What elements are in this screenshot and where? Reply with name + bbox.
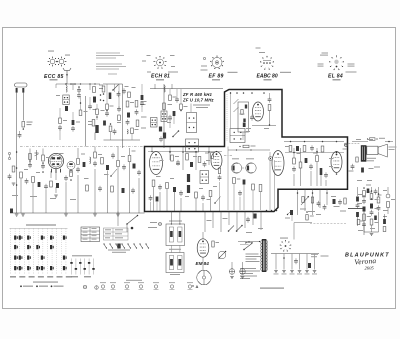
wires osc verticals	[270, 152, 275, 210]
capacitor	[203, 161, 207, 167]
resistor	[233, 178, 241, 184]
junction dots ctl	[297, 192, 328, 194]
text bars	[141, 101, 147, 129]
dark comp	[38, 182, 41, 187]
switch marks	[172, 130, 179, 137]
legend entries	[20, 285, 63, 287]
svg-text:EL 84: EL 84	[328, 73, 343, 79]
text bars	[297, 149, 348, 168]
resistor	[152, 180, 155, 187]
chassis bold outline	[145, 90, 348, 212]
capacitor	[377, 205, 381, 211]
HT bus	[271, 253, 319, 255]
dark cap	[370, 204, 373, 209]
wires from box bottom	[298, 189, 328, 215]
legend caption row	[126, 280, 142, 281]
secondary winding arcs	[266, 241, 267, 271]
dark caps stack	[159, 127, 166, 143]
wire gang top	[228, 147, 270, 211]
tube EM84	[197, 239, 209, 257]
label Ro89	[212, 79, 220, 80]
table bottom labels	[10, 276, 72, 277]
tube socket diagram ECH81	[142, 55, 178, 73]
text bars ctl	[300, 196, 346, 215]
small text bars	[46, 151, 136, 180]
dark comp	[305, 158, 308, 163]
FM dipole antenna	[63, 68, 71, 78]
wires down to terminals	[276, 254, 315, 270]
resistor	[70, 171, 73, 181]
junction dots box	[169, 151, 210, 153]
dash link to gang	[224, 156, 246, 169]
resistor	[311, 197, 313, 203]
resistor	[299, 162, 302, 168]
note text block	[96, 53, 126, 75]
IF can small	[151, 118, 158, 128]
output transformer	[361, 145, 367, 162]
switch position table columns	[10, 229, 66, 274]
capacitor mid	[246, 217, 250, 223]
socket legend row	[100, 282, 193, 289]
coil	[90, 157, 91, 164]
jack circle	[344, 143, 347, 146]
capacitor	[117, 91, 121, 97]
switch row under table	[103, 243, 149, 248]
comps below transformer	[349, 157, 377, 173]
capacitor	[76, 167, 80, 173]
antenna coil 1	[16, 88, 18, 93]
resistor	[171, 155, 179, 161]
dark cap	[106, 165, 109, 170]
dash jack to transformer	[349, 143, 360, 145]
dark comp	[243, 180, 246, 185]
tuning gang dashed line	[20, 146, 144, 148]
svg-text:EABC 80: EABC 80	[257, 73, 278, 79]
label Ro126	[264, 79, 272, 80]
capacitor	[8, 174, 12, 180]
resistor tall	[259, 185, 262, 192]
resistor	[252, 184, 255, 190]
resistor	[126, 101, 134, 107]
note gemessen	[260, 288, 284, 289]
wire long vertical	[85, 96, 87, 147]
B+ wire	[150, 88, 223, 90]
cluster dots	[16, 151, 18, 186]
extra left density	[96, 84, 144, 147]
resistor	[321, 146, 324, 152]
resistor	[166, 183, 169, 189]
wire	[269, 111, 271, 126]
coil L1	[66, 86, 67, 93]
IF can in box	[200, 171, 209, 184]
tube EABC80	[272, 151, 284, 176]
text bars notch	[246, 128, 269, 132]
top dots	[230, 92, 265, 94]
mini table	[81, 227, 100, 242]
svg-text:ZF R 460 kHz: ZF R 460 kHz	[182, 92, 213, 97]
resistor	[42, 155, 45, 161]
capacitor	[362, 222, 366, 228]
IF can notch	[230, 129, 245, 143]
speaker	[367, 144, 388, 157]
speaker terminal text	[389, 147, 397, 151]
res above speaker	[352, 138, 385, 142]
wire verts	[294, 148, 326, 186]
capacitor	[238, 190, 242, 196]
bus junction dots	[266, 210, 278, 212]
interference filter box	[166, 221, 185, 253]
capacitor	[362, 198, 366, 204]
capacitor input	[18, 131, 22, 138]
label EF 89	[209, 74, 224, 80]
mark A	[192, 284, 198, 289]
dash vert tuning	[226, 94, 229, 140]
text bars	[156, 153, 217, 190]
voltage selector	[243, 241, 252, 250]
label ECH 81	[151, 74, 170, 80]
capacitor	[158, 184, 162, 190]
IF can ZF1	[187, 113, 197, 133]
resistor	[94, 152, 97, 158]
dark switch cluster	[285, 210, 293, 221]
resistor	[212, 241, 219, 247]
junction dots right	[293, 151, 337, 175]
logo BLAUPUNKT	[345, 253, 390, 259]
labels under terminals	[274, 273, 318, 276]
svg-text:ECC 85: ECC 85	[44, 74, 64, 80]
label EL 84	[328, 73, 343, 79]
dark component	[93, 97, 96, 103]
wires mains box	[171, 212, 180, 225]
wire box verticals	[152, 147, 209, 170]
table caption	[26, 224, 56, 225]
wire	[21, 179, 46, 214]
label Ro128	[333, 79, 341, 80]
switch cluster right of EM84	[218, 251, 226, 259]
resistor	[316, 156, 319, 162]
wire hrow	[284, 141, 344, 143]
wires to bottom	[154, 187, 211, 211]
dark resistor	[320, 168, 323, 175]
capacitor	[370, 210, 374, 216]
small table left	[104, 228, 129, 240]
text bars	[148, 222, 157, 228]
resistor	[363, 191, 371, 198]
tube socket diagram EF89	[201, 56, 238, 73]
wire horizontals	[103, 84, 140, 140]
table top rail	[10, 228, 68, 230]
tuning cap sym	[35, 150, 39, 160]
gnd right	[370, 234, 374, 236]
svg-text:ZF U 10,7 MHz: ZF U 10,7 MHz	[182, 98, 214, 103]
dark cap	[127, 113, 130, 118]
dark cap	[56, 183, 59, 188]
fuse	[158, 222, 161, 225]
terminal posts	[8, 152, 10, 159]
resistor	[268, 105, 271, 111]
wires to bus	[66, 162, 139, 213]
capacitor	[44, 184, 48, 190]
wire dipole down	[66, 78, 68, 84]
label Ro101	[50, 79, 58, 80]
capacitor	[28, 162, 32, 168]
antenna coil 2	[22, 88, 24, 93]
resistor	[117, 161, 120, 167]
capacitor	[268, 93, 272, 103]
resistor R4	[92, 120, 95, 127]
bus y84 row	[56, 83, 100, 90]
switch contacts mid	[228, 225, 243, 232]
resistor R3	[93, 87, 96, 93]
resistor	[29, 154, 32, 162]
plug icons	[83, 285, 98, 289]
capacitor	[292, 166, 296, 172]
wire bus right	[348, 209, 364, 236]
rail right section	[285, 152, 344, 153]
resistor	[32, 177, 35, 183]
label EM 84	[196, 261, 210, 266]
IF can ZF2 partial	[186, 139, 199, 152]
magic eye face	[197, 270, 212, 285]
extra D components	[168, 89, 187, 128]
components row y185	[86, 185, 135, 194]
capacitor	[201, 195, 205, 201]
wire right edge	[385, 141, 393, 143]
tube EL84	[331, 152, 342, 173]
ferrite rod antenna	[15, 83, 28, 87]
dash line dial lamps	[310, 222, 347, 224]
resistor	[128, 156, 131, 162]
logo 2605	[365, 266, 375, 271]
wire	[118, 212, 127, 233]
dark comp row	[296, 146, 299, 151]
mains choke box	[166, 249, 184, 275]
capacitor	[135, 109, 139, 115]
extra B components	[56, 95, 97, 140]
extra box comps	[149, 160, 222, 211]
B+ rail in left box	[148, 151, 222, 152]
resistor	[195, 192, 198, 198]
capacitor	[93, 161, 97, 167]
label ZF U 10,7 MHz	[182, 98, 214, 103]
resistor	[370, 219, 373, 225]
capacitor	[137, 170, 141, 176]
more right density	[357, 185, 381, 232]
resistor	[12, 166, 15, 172]
legend caption	[33, 282, 58, 283]
wire stub	[88, 121, 95, 140]
resistor	[163, 103, 172, 110]
wire antenna left down	[16, 93, 18, 213]
dark comp	[133, 164, 136, 169]
tube EF89	[211, 152, 222, 170]
wires EM84	[202, 232, 204, 270]
resistor	[211, 153, 214, 159]
capacitor	[64, 175, 68, 181]
label ECC 85	[44, 74, 64, 80]
wire bus vertical	[122, 84, 124, 148]
aux labels	[71, 276, 91, 277]
resistor	[303, 146, 306, 152]
IF can K1	[63, 95, 69, 105]
extra dark comps right	[356, 187, 386, 232]
wire stubs	[155, 84, 191, 112]
IF can	[161, 111, 167, 122]
text bars mid	[207, 218, 264, 233]
aux caption	[72, 254, 92, 257]
oscillator coupling circle	[269, 157, 273, 161]
ground bus left	[10, 209, 145, 217]
junctions row	[290, 141, 338, 143]
gnd	[12, 183, 16, 185]
junctions	[42, 162, 44, 173]
dark cap	[190, 162, 193, 167]
label EABC 80	[257, 73, 278, 79]
coil L5	[164, 86, 165, 93]
capacitor	[310, 145, 314, 151]
resistor	[20, 172, 23, 178]
variable capacitor FM gang	[231, 163, 241, 173]
coil	[127, 130, 128, 134]
capacitor	[122, 164, 126, 170]
small caps on drops	[283, 257, 311, 268]
tube ECC85 triode B	[67, 162, 75, 174]
capacitor C5	[77, 86, 81, 93]
tube socket EZ80	[280, 238, 291, 252]
resistor	[363, 214, 366, 221]
cap small	[250, 115, 254, 121]
resistor	[136, 120, 139, 127]
terminal symbols	[274, 271, 316, 273]
text under switch row	[108, 250, 130, 253]
junction	[103, 93, 105, 101]
component cluster C/L input	[22, 122, 33, 130]
capacitor	[176, 160, 180, 166]
dark resistor tall	[187, 174, 190, 193]
power transformer core	[262, 239, 267, 272]
wire verticals lower	[78, 147, 130, 161]
variable capacitor AM gang	[246, 163, 256, 173]
wire tube1 down	[51, 169, 56, 180]
dark resistor	[109, 93, 112, 100]
tube EF89 IF	[253, 102, 264, 121]
wire vert main	[163, 84, 165, 148]
logo Verona script	[354, 256, 377, 267]
text bars	[12, 169, 76, 200]
text bars	[167, 119, 172, 124]
capacitor	[179, 190, 183, 196]
svg-text:EM 84: EM 84	[196, 261, 210, 266]
resistor	[209, 191, 212, 197]
wire corner to rect	[294, 223, 312, 240]
resistor small	[306, 211, 314, 220]
electrolytic cap 2	[240, 262, 246, 279]
label ZF R 460 kHz	[182, 92, 213, 97]
resistor	[101, 158, 104, 165]
component row under edge	[285, 146, 292, 152]
mains text rows	[240, 268, 260, 279]
resistor	[135, 101, 138, 108]
resistor	[377, 197, 380, 203]
tube ECH81	[150, 152, 163, 175]
capacitor	[41, 163, 45, 169]
wires col	[364, 187, 379, 232]
svg-text:EF 89: EF 89	[209, 74, 224, 80]
resistor	[50, 181, 53, 187]
wire vertical notch	[230, 92, 232, 128]
small note under ZF	[193, 105, 210, 109]
wire antenna right down	[22, 93, 24, 121]
trimmer caps	[234, 99, 239, 112]
trimmer	[214, 197, 220, 204]
resistor	[77, 159, 80, 165]
dark comp	[173, 187, 176, 192]
svg-text:A: A	[196, 284, 199, 289]
wire	[30, 149, 43, 165]
junction dots	[65, 83, 76, 85]
tube socket diagram ECC85	[48, 51, 70, 67]
far right comps	[383, 187, 395, 214]
comp cluster	[333, 198, 347, 205]
primary winding arcs	[261, 241, 262, 271]
label Ro170	[156, 79, 164, 80]
extra mid components	[101, 84, 122, 140]
wires mixer down	[234, 184, 261, 210]
jack circle	[344, 143, 347, 146]
switch lever	[126, 215, 138, 230]
text bars out	[356, 139, 388, 223]
capacitor	[126, 119, 130, 125]
capacitor	[111, 153, 115, 159]
capacitor	[309, 164, 313, 170]
aux switch columns	[70, 259, 94, 275]
trimmer diag	[110, 169, 117, 177]
capacitor C6	[77, 93, 81, 99]
gang labels	[232, 158, 254, 159]
electrolytic cap 1	[229, 262, 235, 279]
resistor	[198, 157, 201, 163]
label 6.3V box	[311, 254, 329, 257]
volume pot	[301, 196, 309, 205]
dark trimmer	[65, 106, 68, 111]
FM IF can box	[238, 102, 249, 140]
resistor	[293, 158, 296, 164]
dark comp	[363, 207, 366, 212]
wires down	[205, 212, 261, 233]
capacitor	[324, 172, 328, 178]
svg-text:ECH 81: ECH 81	[151, 74, 170, 80]
wire across	[252, 125, 276, 127]
gnd	[54, 187, 58, 197]
resistor	[370, 194, 373, 200]
voltage labels	[246, 254, 261, 263]
tube ECC85 triode A	[48, 153, 63, 173]
tone caps	[317, 201, 327, 210]
svg-text:2605: 2605	[365, 266, 375, 271]
mixer top cluster	[239, 145, 255, 147]
tube socket diagram EL84	[318, 53, 357, 73]
resistor	[186, 154, 189, 161]
dark comp	[83, 162, 86, 167]
resistor	[102, 86, 105, 92]
tube socket diagram EABC80	[256, 48, 292, 73]
switch diagonal	[112, 85, 118, 91]
dark comp mid	[253, 214, 256, 219]
mains wires	[238, 241, 260, 245]
small marks	[99, 85, 103, 101]
capacitor	[25, 178, 29, 184]
dark capacitor	[95, 125, 98, 133]
